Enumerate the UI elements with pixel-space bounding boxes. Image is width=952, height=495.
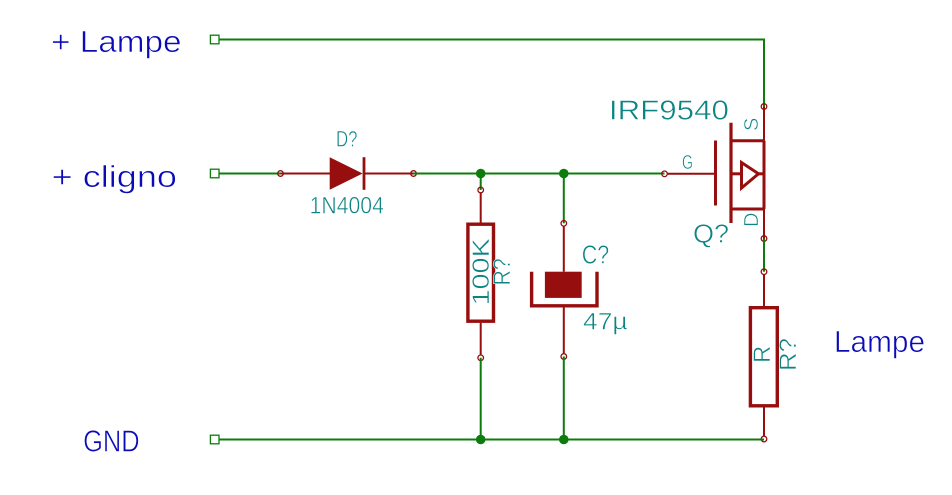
body of R?: [468, 224, 494, 321]
resistor R (Lampe load): [750, 269, 777, 442]
pin 2 (cathode) of D?: [364, 173, 414, 175]
svg-text:R?: R?: [775, 338, 802, 371]
capacitor C? 47µ: [532, 221, 597, 360]
body of R: [750, 308, 777, 406]
svg-text:+ Lampe: + Lampe: [51, 24, 182, 59]
label anchor square "GND": [210, 435, 219, 444]
wire: junction down to R? top pin: [480, 174, 482, 191]
right bar of Q?: [763, 141, 766, 209]
cathode bar of D?: [363, 157, 366, 190]
wire: junction down to C? top pin: [563, 174, 565, 224]
pin 1 of R? (top): [478, 187, 484, 193]
anode triangle of D?: [330, 157, 363, 190]
svg-text:GND: GND: [83, 424, 140, 459]
pin 1 of R (top): [761, 269, 767, 275]
junction at R?/100K column on GND rail: [476, 435, 486, 445]
wire: C? bottom pin to GND rail: [563, 357, 565, 440]
wire: GND rail horizontal: [219, 439, 764, 441]
svg-text:R: R: [749, 346, 776, 363]
svg-text:C?: C?: [582, 240, 610, 270]
junction at C? column on cligno net: [559, 169, 569, 179]
pin 1 of C? (top): [561, 221, 567, 227]
resistor R? 100K: [468, 187, 494, 360]
svg-text:S: S: [741, 118, 763, 131]
svg-text:1N4004: 1N4004: [310, 192, 384, 219]
junction at R?/100K column on cligno net: [476, 169, 486, 179]
wire: Q? drain to lamp resistor R top pin: [763, 239, 765, 272]
negative cup electrode of C?: [532, 272, 597, 306]
drain pin of Q?: [763, 209, 765, 239]
svg-text:Q?: Q?: [693, 219, 729, 249]
svg-text:R?: R?: [489, 258, 516, 285]
svg-text:+ cligno: + cligno: [52, 159, 177, 194]
svg-text:Lampe: Lampe: [834, 324, 925, 359]
drain stub of Q?: [731, 208, 764, 211]
svg-text:G: G: [682, 152, 693, 174]
transistor Q? IRF9540 (P-MOSFET): [662, 104, 767, 242]
positive plate of C?: [545, 272, 582, 298]
label anchor square "+ Lampe": [210, 35, 219, 44]
diode D? 1N4004: [278, 157, 417, 190]
pin 2 of R (bottom): [763, 408, 765, 437]
junction at C? column on GND rail: [559, 435, 569, 445]
wire: R? bottom pin to GND rail: [480, 358, 482, 440]
svg-text:IRF9540: IRF9540: [609, 95, 729, 126]
pin 2 of R? (bottom): [480, 323, 482, 355]
wire: +cligno to diode anode: [219, 173, 281, 175]
svg-text:D: D: [741, 213, 763, 227]
pin 2 of C? (bottom): [563, 308, 565, 354]
wire: diode cathode to Q1 gate: [414, 173, 665, 175]
svg-text:47µ: 47µ: [583, 308, 628, 335]
svg-text:D?: D?: [336, 127, 358, 152]
channel bar of Q?: [729, 123, 732, 223]
source stub of Q?: [731, 139, 764, 142]
bulk stub with arrow of Q?: [731, 172, 741, 175]
source pin of Q?: [763, 107, 765, 141]
label anchor square "+ cligno": [210, 169, 219, 178]
gate bar of Q?: [714, 141, 717, 206]
pin 1 (anode) of D?: [281, 173, 331, 175]
wire: +Lampe rail top horizontal and right vertical to Q1 source: [219, 40, 764, 107]
gate pin of Q?: [662, 171, 668, 177]
